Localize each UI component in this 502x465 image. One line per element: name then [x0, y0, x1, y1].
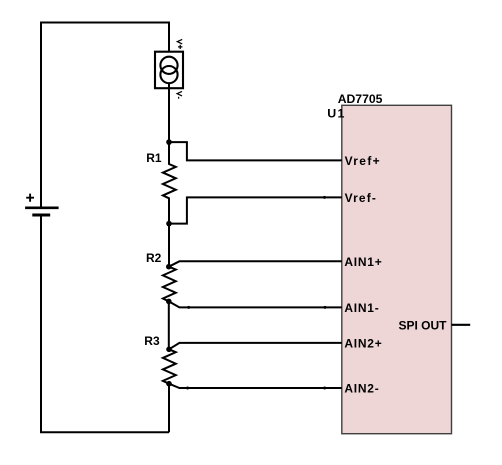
current source I1 terminal label V- (rotated, drawn as strokes) — [177, 91, 182, 98]
wire current source bottom to R1 — [168, 83, 170, 142]
svg-text:AIN1+: AIN1+ — [344, 255, 382, 269]
current source I1 box — [155, 52, 183, 88]
node R1 top junction dot — [166, 139, 172, 145]
wire left vertical lower (battery - side) — [40, 215, 42, 432]
battery B1 top plate (long) — [25, 207, 59, 210]
wire net Vref- (R1 bottom to U1) — [169, 197, 342, 223]
resistor R2 body (zigzag) — [163, 267, 176, 302]
svg-text:AD7705: AD7705 — [338, 92, 383, 106]
node AIN1- pin end dot — [324, 306, 327, 309]
IC U1 AD7705 body — [342, 105, 452, 433]
wire R1 bottom to R2 top — [168, 224, 170, 267]
svg-text:R2: R2 — [146, 251, 162, 265]
node R2 top junction dot — [166, 264, 172, 270]
node AIN2- pin end dot — [323, 387, 326, 390]
svg-text:U1: U1 — [327, 106, 345, 120]
svg-text:AIN2+: AIN2+ — [344, 337, 382, 351]
svg-text:AIN1-: AIN1- — [344, 301, 379, 315]
node R3 top junction dot — [166, 347, 172, 353]
wire top horizontal — [41, 22, 169, 24]
svg-text:R3: R3 — [144, 334, 160, 348]
wire R2 bottom to R3 top — [168, 301, 170, 349]
current source I1 bottom circle — [160, 66, 177, 83]
node R1 bottom junction dot — [166, 221, 172, 227]
wire net AIN2- (R3 bottom to U1) — [169, 384, 342, 388]
svg-text:Vref-: Vref- — [345, 191, 377, 205]
svg-text:R1: R1 — [146, 151, 162, 165]
resistor R3 body (zigzag) — [163, 349, 176, 383]
wire net AIN1+ (R2 top to U1) — [169, 261, 342, 266]
wire net AIN1- (R2 bottom to U1) — [169, 301, 342, 307]
wire R3 bottom to bottom rail — [168, 384, 170, 433]
battery B1 plus sign — [26, 194, 34, 202]
svg-text:AIN2-: AIN2- — [344, 382, 379, 396]
wire bottom horizontal — [40, 431, 169, 433]
svg-text:Vref+: Vref+ — [345, 154, 381, 168]
node R2 bottom junction dot — [166, 299, 172, 305]
current source I1 terminal label V+ (rotated, drawn as strokes) — [177, 39, 182, 49]
resistor R1 body (zigzag with leads) — [163, 142, 176, 224]
node AIN2- wire joint dot — [186, 387, 189, 390]
node AIN1- wire joint dot — [187, 306, 190, 309]
node Vref- pin end dot — [323, 196, 326, 199]
wire net Vref+ (R1 top to U1) — [169, 142, 342, 160]
wire left vertical upper (battery + side) — [40, 22, 42, 208]
wire from top into current source — [168, 22, 170, 58]
wire SPI OUT pin stub — [452, 324, 471, 326]
current source I1 top circle — [160, 57, 177, 74]
wire net AIN2+ (R3 top to U1) — [169, 343, 342, 349]
node R3 bottom junction dot — [166, 381, 172, 387]
battery B1 bottom plate (short) — [32, 214, 50, 217]
svg-text:SPI OUT: SPI OUT — [398, 318, 447, 332]
